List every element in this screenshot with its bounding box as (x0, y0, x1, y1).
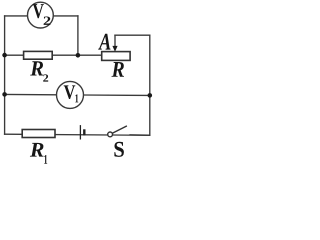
wire bottom horizontal (5, 134, 150, 135)
rheostat slider arrowhead (112, 46, 117, 52)
label S-switch (114, 142, 123, 157)
wire V2 branch down (77, 16, 79, 55)
label V2-2 (44, 16, 51, 24)
label V1-1 (75, 94, 78, 102)
wire slider arrow stem (114, 35, 116, 47)
wire V2 right (53, 15, 78, 17)
node junction dot right V1 row (148, 93, 153, 98)
resistor R2 body (24, 51, 53, 59)
label V1-V (64, 85, 76, 99)
voltmeter V1 circle (57, 81, 84, 108)
label R1-R (30, 143, 44, 157)
wire rheostat slider top (115, 34, 150, 36)
node junction dot V2 branch on R2 row (76, 53, 81, 58)
label R-rheo (111, 62, 123, 77)
wire V2 left (5, 15, 28, 17)
wire V1 row right (83, 94, 149, 96)
switch right contact wire (129, 134, 149, 136)
label R2-R (30, 61, 43, 75)
wire right vertical (149, 35, 151, 135)
rheostat R body (102, 52, 130, 61)
label A-slider (98, 34, 110, 50)
battery long plate (79, 125, 81, 139)
label R2-2 (43, 74, 48, 81)
wire left vertical (4, 16, 6, 134)
switch lever (112, 126, 127, 133)
resistor R1 body (22, 130, 55, 138)
node junction dot left R2 row (2, 53, 7, 58)
wire V1 row left (5, 93, 57, 95)
node junction dot left V1 row (2, 92, 7, 97)
voltmeter V2 circle (28, 2, 54, 28)
label R1-1 (44, 155, 47, 164)
wire R2 row (5, 54, 102, 56)
switch pivot circle (108, 132, 113, 137)
label V2-V (33, 4, 44, 18)
battery short thick plate (83, 129, 85, 135)
